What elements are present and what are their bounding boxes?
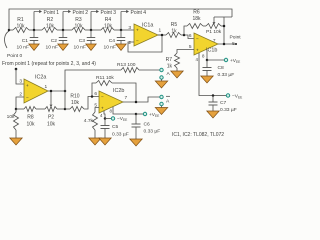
svg-text:IC2b: IC2b — [113, 88, 124, 94]
wire P1 wiper to feedback — [214, 16, 232, 18]
svg-text:1k: 1k — [171, 29, 177, 35]
svg-text:0.33 µF: 0.33 µF — [144, 129, 161, 135]
resistor R8 10k — [16, 108, 24, 110]
svg-text:10k: 10k — [7, 114, 15, 120]
wire — [34, 29, 42, 31]
svg-text:+: + — [101, 105, 104, 110]
svg-text:P1 10k: P1 10k — [206, 29, 222, 35]
capacitor C2 10 nF — [62, 30, 64, 38]
svg-text:0.33 µF: 0.33 µF — [112, 132, 129, 138]
ground — [155, 108, 168, 115]
svg-text:+: + — [196, 47, 199, 52]
wire feedback border — [9, 9, 232, 30]
wire IC2b output — [123, 97, 160, 102]
wire P2 wiper to output — [50, 91, 52, 105]
ground C5 — [99, 138, 112, 145]
svg-text:C1: C1 — [22, 38, 29, 44]
capacitor C6 0.33 uF — [135, 114, 137, 124]
svg-text:10 nF: 10 nF — [73, 45, 86, 51]
svg-text:IC1a: IC1a — [142, 23, 153, 29]
svg-text:IC1, IC2: TL082, TL072: IC1, IC2: TL082, TL072 — [172, 132, 224, 138]
wire to +VEE terminal — [207, 59, 224, 61]
resistor R5 1k — [166, 33, 181, 38]
svg-text:1k: 1k — [167, 64, 173, 70]
op-amp IC2a — [24, 79, 48, 103]
resistor R4 — [101, 28, 114, 33]
svg-text:Point 2: Point 2 — [73, 10, 89, 16]
svg-text:R10: R10 — [70, 94, 79, 100]
svg-text:C3: C3 — [79, 38, 86, 44]
svg-text:C2: C2 — [51, 38, 58, 44]
svg-text:10k: 10k — [74, 23, 83, 29]
ground C8 — [201, 76, 214, 83]
svg-text:C4: C4 — [109, 38, 116, 44]
svg-text:−: − — [136, 38, 139, 43]
svg-text:From point 1 (repeat for point: From point 1 (repeat for points 2, 3, an… — [2, 61, 96, 67]
resistor R2 — [42, 28, 57, 33]
resistor 4.7k to ground — [95, 108, 99, 113]
svg-text:10k: 10k — [71, 100, 80, 106]
svg-text:R11 10k: R11 10k — [96, 75, 114, 81]
svg-text:Point 1: Point 1 — [44, 10, 60, 16]
svg-text:6: 6 — [94, 91, 97, 97]
svg-text:4.7k: 4.7k — [84, 118, 94, 124]
capacitor C3 10 nF — [90, 30, 92, 38]
potentiometer P2 10k — [36, 108, 45, 110]
terminal A — [160, 68, 163, 71]
ground — [58, 44, 69, 51]
svg-text:3: 3 — [19, 79, 22, 85]
ground R7 — [171, 71, 184, 78]
svg-text:Point 0: Point 0 — [7, 53, 23, 59]
svg-text:C8: C8 — [218, 65, 225, 71]
wire IC2a output — [48, 90, 65, 92]
svg-text:C5: C5 — [112, 124, 119, 130]
op-amp IC2b — [99, 91, 123, 113]
svg-text:6: 6 — [189, 33, 192, 39]
svg-text:0.33 µF: 0.33 µF — [218, 72, 235, 78]
wire — [63, 29, 72, 31]
svg-text:10k: 10k — [26, 122, 35, 128]
wire P1 to output node — [223, 17, 225, 44]
svg-text:10k: 10k — [104, 23, 113, 29]
svg-text:10 nF: 10 nF — [16, 45, 29, 51]
svg-text:R8: R8 — [27, 115, 34, 121]
op-amp IC1a — [134, 24, 158, 46]
wire — [91, 29, 101, 31]
capacitor C5 0.33 uF — [104, 119, 106, 126]
wire RC ladder chain — [9, 29, 13, 31]
svg-text:−: − — [101, 94, 104, 99]
wire IC1b output Point 5 — [218, 43, 236, 45]
wire R5 to IC1b pin 6 — [181, 35, 194, 39]
ground — [29, 44, 40, 51]
resistor R3 — [72, 28, 85, 33]
capacitor C7 0.33 uF — [212, 96, 214, 103]
wire to IC1a pin 3 — [121, 29, 134, 31]
capacitor C8 0.33 uF — [206, 60, 208, 68]
capacitor C1 10 nF — [33, 30, 35, 38]
op-amp IC1b — [194, 33, 218, 55]
svg-text:P2: P2 — [48, 115, 54, 121]
wire input from point 1 — [15, 68, 18, 71]
svg-text:R6: R6 — [193, 10, 200, 16]
terminal A-bar — [160, 95, 163, 98]
resistor 10k to ground — [14, 112, 19, 130]
svg-text:−: − — [196, 36, 199, 41]
svg-text:2: 2 — [128, 40, 131, 46]
node Point 1 tick — [33, 12, 35, 31]
svg-text:C6: C6 — [144, 122, 151, 128]
terminal A-bar ground pin — [160, 102, 163, 105]
resistor R11 10k feedback — [92, 83, 96, 97]
svg-text:R3: R3 — [75, 17, 82, 23]
ground C6 — [130, 139, 143, 146]
svg-text:R7: R7 — [166, 57, 173, 63]
wire IC1a output — [158, 34, 166, 36]
ground — [155, 81, 168, 88]
svg-text:R5: R5 — [171, 22, 178, 28]
svg-text:+: + — [136, 27, 139, 32]
resistor R13 100 — [121, 68, 139, 73]
resistor R7 1k — [177, 50, 194, 54]
ground — [86, 44, 97, 51]
svg-text:R1: R1 — [17, 17, 24, 23]
wire P2 right to output — [64, 91, 66, 109]
svg-text:R13 100: R13 100 — [117, 62, 136, 68]
svg-text:0.33 µF: 0.33 µF — [220, 107, 237, 113]
svg-text:1: 1 — [45, 84, 48, 90]
ground C7 — [207, 111, 220, 118]
svg-text:−: − — [26, 95, 29, 100]
svg-text:10 nF: 10 nF — [45, 45, 58, 51]
ground — [116, 44, 127, 51]
terminal A ground pin — [160, 76, 163, 79]
svg-text:IC2a: IC2a — [35, 75, 46, 81]
svg-text:7: 7 — [213, 38, 216, 44]
resistor R10 10k — [65, 108, 70, 110]
svg-text:C7: C7 — [220, 100, 227, 106]
node Point 4 tick — [120, 12, 122, 31]
svg-text:10k: 10k — [46, 23, 55, 29]
resistor R1 — [13, 28, 29, 33]
svg-text:IC1b: IC1b — [206, 48, 217, 54]
node Point 0 — [5, 31, 9, 48]
svg-text:R2: R2 — [47, 17, 54, 23]
svg-text:5: 5 — [232, 41, 235, 47]
resistor R6 18k — [184, 26, 187, 35]
ground — [89, 138, 102, 145]
svg-text:7: 7 — [125, 95, 128, 101]
svg-text:Point 3: Point 3 — [101, 10, 117, 16]
wire tap to R13 — [65, 70, 121, 91]
svg-text:3: 3 — [128, 25, 131, 31]
svg-text:18k: 18k — [192, 16, 201, 22]
svg-text:10 nF: 10 nF — [103, 45, 116, 51]
wire to -VEE terminal — [213, 95, 226, 97]
wire IC1a feedback — [128, 35, 162, 52]
svg-text:10k: 10k — [47, 122, 56, 128]
wire IC2a pin 2 — [16, 97, 24, 109]
wire to terminal A — [139, 69, 160, 71]
potentiometer P1 10k — [203, 25, 206, 27]
node Point 2 tick — [62, 12, 64, 31]
capacitor C4 10 nF — [120, 30, 122, 38]
svg-text:Point: Point — [230, 35, 242, 41]
ground — [10, 138, 23, 145]
node Point 3 tick — [90, 12, 92, 31]
svg-text:1: 1 — [159, 28, 162, 34]
svg-text:R4: R4 — [105, 17, 112, 23]
svg-text:+: + — [26, 83, 29, 88]
svg-text:10k: 10k — [16, 23, 25, 29]
svg-text:Point 4: Point 4 — [131, 10, 147, 16]
